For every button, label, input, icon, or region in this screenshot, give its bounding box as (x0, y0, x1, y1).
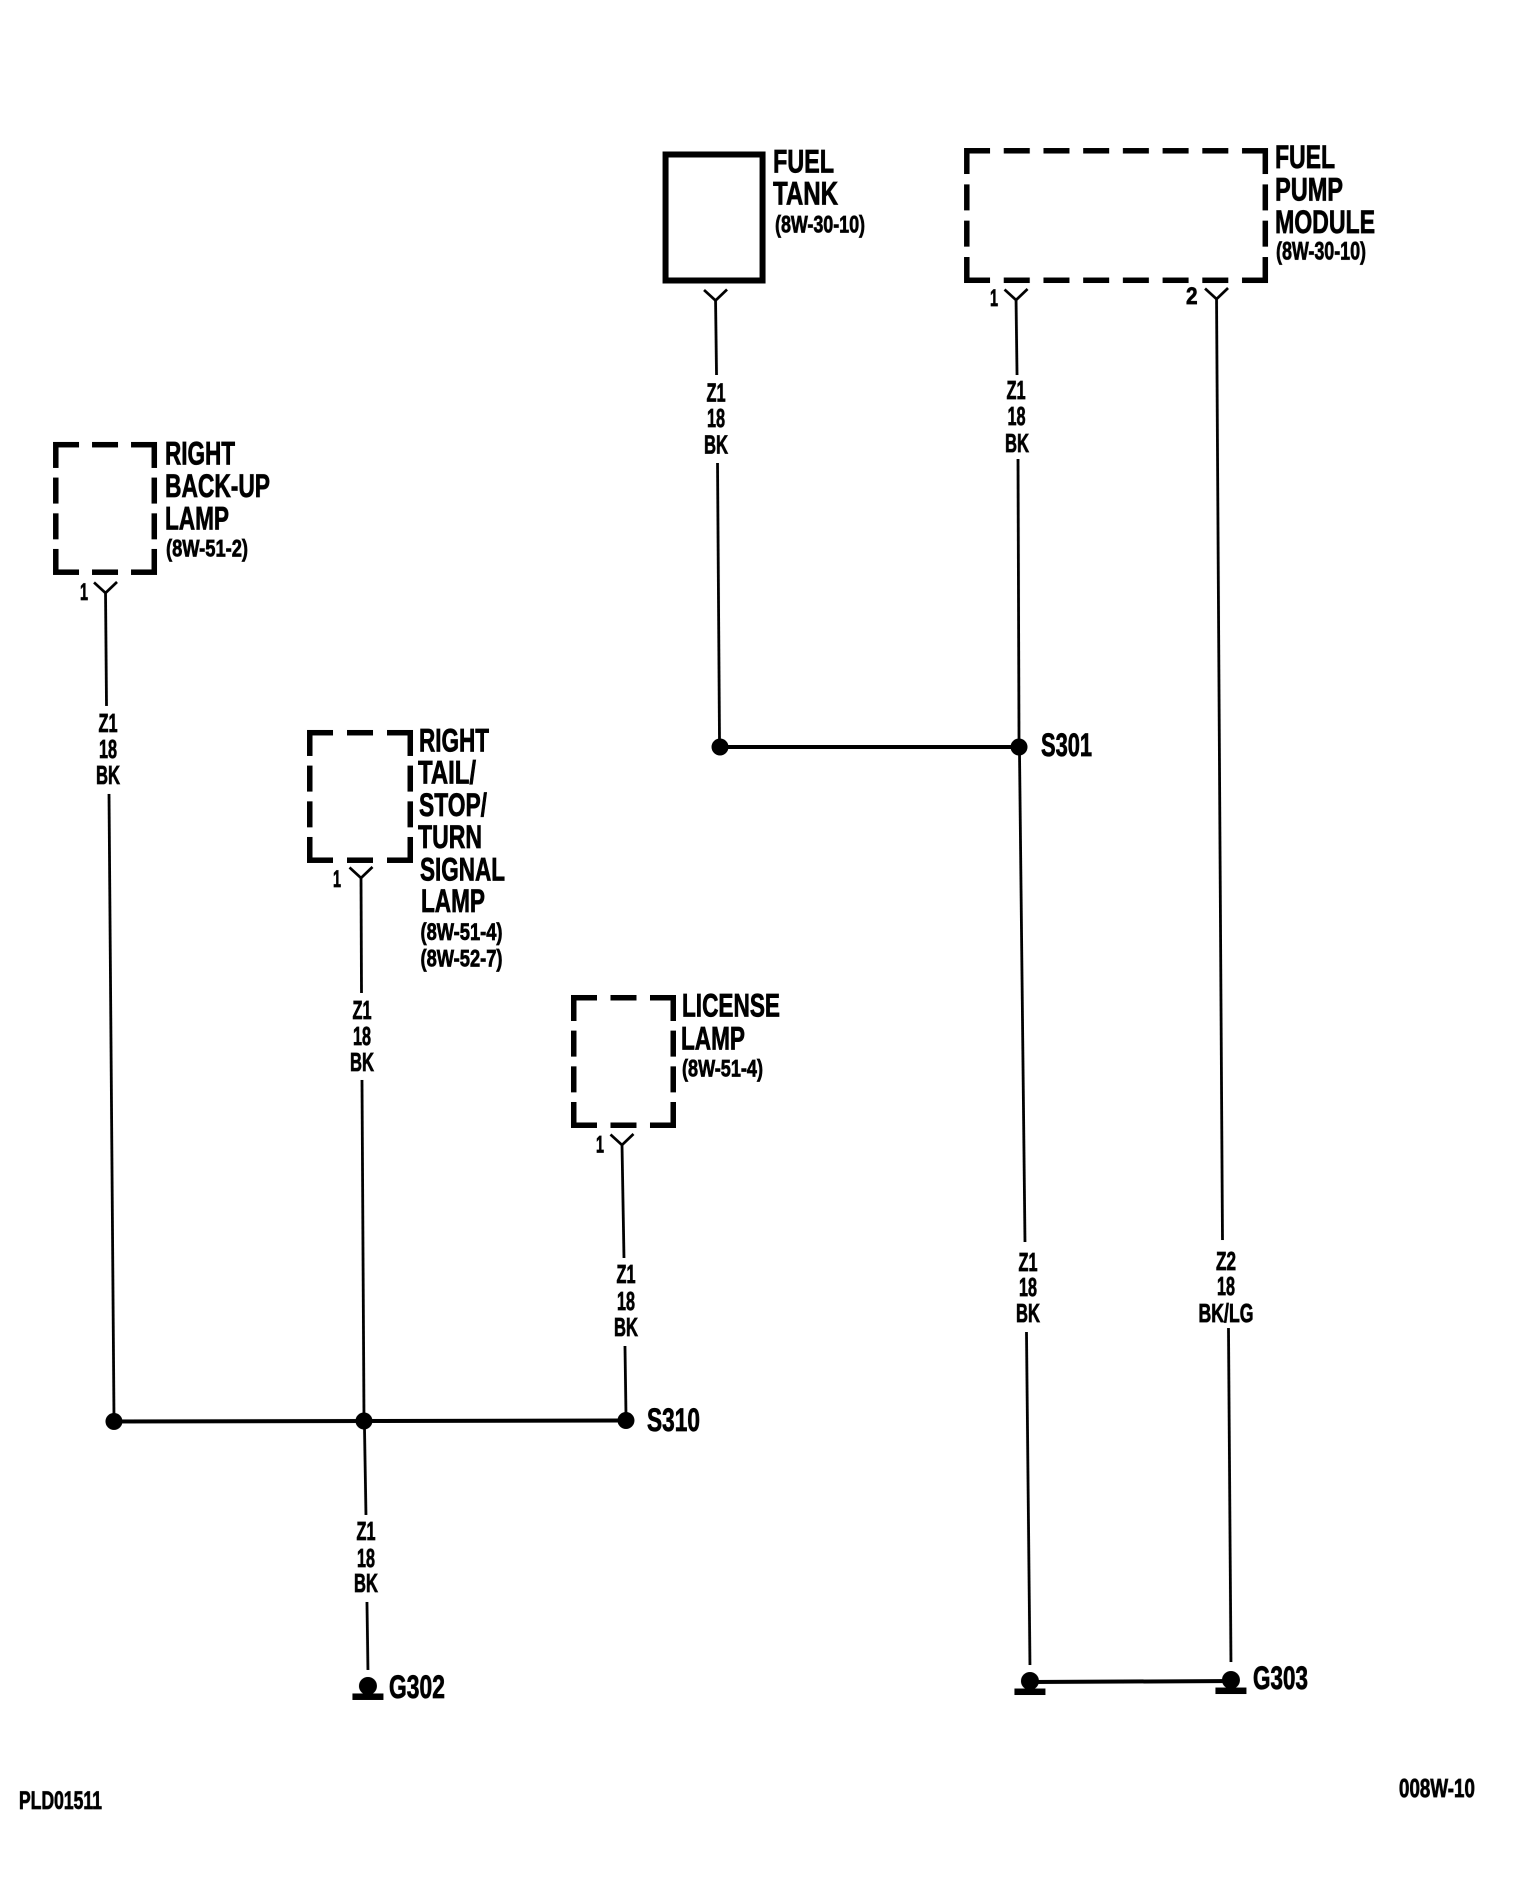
fuel pump module pin 2 (1186, 283, 1228, 310)
wire fuel tank Z1 lower segment (718, 463, 720, 741)
splice S301 horizontal wire (720, 745, 1019, 749)
label Z1 18 BK back-up lamp wire (96, 710, 120, 790)
svg-text:BACK-UP: BACK-UP (165, 468, 270, 504)
svg-text:BK/LG: BK/LG (1198, 1300, 1253, 1328)
svg-text:TANK: TANK (773, 175, 838, 211)
label Z1 18 BK ground wire (354, 1518, 378, 1598)
splice dot S310 (617, 1412, 634, 1429)
wire fuel pump pin 1 Z1 upper segment (1016, 299, 1017, 375)
svg-text:18: 18 (357, 1545, 375, 1573)
svg-text:Z1: Z1 (352, 997, 371, 1025)
svg-text:Z1: Z1 (1007, 377, 1026, 405)
fuel tank connector fork (704, 289, 727, 300)
svg-text:BK: BK (1005, 430, 1029, 458)
svg-text:1: 1 (990, 285, 998, 312)
splice dot fuel tank side (712, 738, 729, 755)
splice S310 horizontal wire (114, 1420, 626, 1421)
svg-text:(8W-51-4): (8W-51-4) (421, 919, 503, 946)
wire fuel tank Z1 upper segment (716, 299, 717, 375)
svg-text:S310: S310 (647, 1402, 700, 1438)
svg-text:(8W-30-10): (8W-30-10) (1276, 238, 1366, 266)
svg-text:STOP/: STOP/ (419, 787, 487, 823)
svg-text:18: 18 (353, 1023, 371, 1051)
svg-text:18: 18 (707, 405, 725, 433)
right tail/stop/turn signal lamp box (307, 730, 413, 863)
wire tail lamp Z1 upper segment (360, 877, 363, 993)
svg-text:18: 18 (617, 1288, 635, 1316)
fuel pump module pin 1 (990, 285, 1028, 312)
svg-text:BK: BK (354, 1570, 378, 1598)
svg-text:Z1: Z1 (356, 1518, 375, 1546)
svg-text:BK: BK (704, 431, 728, 459)
right tail lamp pin 1 (333, 866, 373, 893)
wire S310 to G302 upper segment (364, 1427, 366, 1515)
wire license lamp Z1 lower segment (625, 1346, 626, 1414)
license lamp pin 1 (596, 1131, 634, 1158)
label Z1 18 BK tail lamp wire (350, 997, 374, 1077)
svg-text:LICENSE: LICENSE (682, 988, 780, 1024)
wire back-up lamp Z1 lower segment (109, 794, 114, 1416)
ground G303 right symbol (1215, 1671, 1246, 1694)
label Z1 18 BK license lamp wire (614, 1261, 638, 1342)
svg-text:BK: BK (614, 1314, 638, 1342)
svg-text:BK: BK (1016, 1300, 1040, 1328)
license lamp label (681, 988, 780, 1083)
svg-text:TURN: TURN (418, 819, 482, 855)
svg-text:1: 1 (80, 579, 88, 606)
label Z1 18 BK fuel tank wire (704, 379, 728, 459)
svg-text:RIGHT: RIGHT (419, 722, 489, 758)
right tail/stop/turn signal lamp label (418, 722, 505, 972)
right back-up lamp pin 1 (80, 579, 117, 606)
ground G302 (352, 1677, 383, 1700)
wire back-up lamp Z1 upper segment (106, 592, 107, 706)
wire fuel pump pin 1 Z1 middle segment (1018, 459, 1019, 741)
ground G303 left symbol (1014, 1672, 1045, 1695)
svg-text:S301: S301 (1041, 727, 1092, 763)
splice dot back-up branch (105, 1413, 122, 1430)
wire S310 to G302 lower segment (367, 1602, 368, 1670)
svg-text:PUMP: PUMP (1275, 171, 1343, 207)
svg-text:PLD01511: PLD01511 (19, 1787, 102, 1815)
svg-text:(8W-52-7): (8W-52-7) (420, 946, 502, 973)
wire S301 to G303 lower segment Z1 (1026, 1332, 1030, 1665)
svg-text:FUEL: FUEL (773, 144, 834, 180)
svg-text:Z1: Z1 (1018, 1249, 1037, 1277)
fuel tank label (773, 144, 865, 239)
svg-text:(8W-51-4): (8W-51-4) (682, 1056, 763, 1083)
svg-text:(8W-30-10): (8W-30-10) (775, 212, 865, 239)
svg-text:RIGHT: RIGHT (165, 435, 235, 471)
label Z2 18 BK/LG wire (1198, 1248, 1253, 1328)
wire license lamp Z1 upper segment (622, 1144, 624, 1258)
svg-text:Z2: Z2 (1216, 1248, 1236, 1276)
license lamp box (571, 995, 676, 1128)
svg-text:G302: G302 (389, 1669, 445, 1705)
svg-text:BK: BK (350, 1049, 374, 1077)
wire tail lamp Z1 lower segment (362, 1080, 364, 1416)
splice dot tail branch (355, 1412, 372, 1429)
svg-text:Z1: Z1 (99, 710, 118, 738)
svg-text:G303: G303 (1253, 1660, 1308, 1696)
right back-up lamp box (53, 442, 157, 575)
svg-text:Z1: Z1 (707, 379, 726, 407)
svg-text:1: 1 (596, 1131, 604, 1158)
svg-text:18: 18 (1217, 1273, 1235, 1301)
wire fuel pump pin 2 Z2 lower segment (1228, 1328, 1231, 1662)
svg-text:18: 18 (1019, 1274, 1037, 1302)
svg-text:BK: BK (96, 762, 120, 790)
svg-text:18: 18 (99, 736, 117, 764)
svg-text:1: 1 (333, 866, 341, 893)
svg-text:2: 2 (1186, 283, 1198, 310)
fuel tank box (666, 154, 763, 280)
svg-text:18: 18 (1008, 403, 1026, 431)
label Z1 18 BK lower fuel pump pin 1 wire (1016, 1249, 1040, 1328)
svg-text:LAMP: LAMP (681, 1020, 745, 1056)
svg-text:(8W-51-2): (8W-51-2) (166, 535, 248, 562)
right back-up lamp label (165, 435, 270, 562)
fuel pump module label (1275, 139, 1375, 266)
svg-text:LAMP: LAMP (165, 500, 229, 536)
svg-text:LAMP: LAMP (421, 883, 485, 919)
wire S301 to G303 upper segment Z1 (1019, 753, 1025, 1242)
wire fuel pump pin 2 Z2 upper segment (1216, 298, 1222, 1241)
svg-text:FUEL: FUEL (1275, 139, 1335, 175)
svg-text:MODULE: MODULE (1275, 204, 1375, 240)
svg-text:TAIL/: TAIL/ (418, 755, 476, 791)
splice dot S301 (1011, 739, 1028, 756)
svg-text:008W-10: 008W-10 (1399, 1773, 1475, 1803)
label Z1 18 BK fuel pump pin 1 wire (1005, 377, 1029, 458)
ground G303 connecting wire (1030, 1681, 1231, 1682)
fuel pump module box (964, 148, 1268, 283)
svg-text:Z1: Z1 (616, 1261, 635, 1289)
